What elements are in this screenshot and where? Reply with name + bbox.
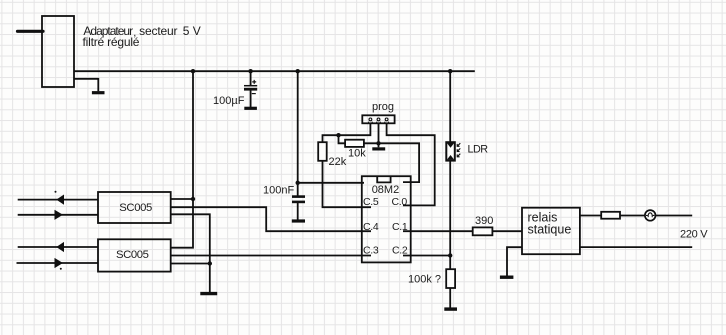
ground (100µF) [244,107,257,110]
wire: relais top output [580,215,692,217]
capacitor 100nF lower lead [297,203,299,220]
svg-text:SC005: SC005 [116,249,149,261]
wire: 100k to ground [449,288,451,308]
wire: relais left to ground [507,247,522,275]
svg-text:C.1: C.1 [392,221,408,233]
svg-text:SC005: SC005 [119,202,152,214]
ground (prog) [372,147,385,150]
LDR top triangle [447,143,454,148]
prog pin 2 socket [377,122,381,124]
ground (SC005) [200,292,217,295]
junction node rail x450.2 [448,69,452,73]
svg-text:C.2: C.2 [392,244,408,256]
svg-text:100nF: 100nF [263,185,294,197]
svg-text:secteur: secteur [139,24,177,38]
light arrow 3 [457,154,460,157]
fuse [601,212,620,219]
relais statique box [522,208,580,255]
svg-text:prog: prog [372,101,394,113]
diode arrow input 1 (left) [56,195,64,205]
svg-text:C.5: C.5 [363,196,379,208]
LDR body [446,142,455,160]
diode arrow input 2 (right) [55,210,63,220]
wire: SC005#2 C.3 wire [171,255,371,257]
wire: C.2 to LDR node [403,255,450,257]
wire: SC005#1 out to C.4 [171,207,371,231]
capacitor 100µF plus plate [244,85,257,87]
prog pin 3 [385,118,388,121]
light arrow 1 [457,143,460,146]
prog pin 1 socket [369,122,373,124]
junction node rail x250.6 [248,69,252,73]
svg-text:C.4: C.4 [363,221,379,233]
svg-text:100µF: 100µF [213,95,245,107]
svg-text:10k: 10k [348,148,366,160]
capacitor 100µF wire from rail [250,71,252,85]
prog pin 1 [369,118,372,121]
wire: relais bottom output [580,246,692,248]
prog pin 3 socket [385,122,389,124]
wire: rail down to SC005 supplies [171,71,193,248]
light arrow 2 [457,148,460,151]
input wire 4 [17,262,99,264]
svg-text:220 V: 220 V [680,228,708,240]
svg-text:statique: statique [528,223,572,237]
prog connector box [362,115,394,123]
ground (100k) [444,307,457,310]
capacitor 100nF plate 1 [292,195,305,198]
capacitor 100µF lower lead [250,91,252,108]
ground (adapter) [92,91,105,94]
wire: 10k right to C.0 inner [364,143,419,182]
svg-text:100k ?: 100k ? [408,274,441,286]
junction node (297.7,182.8) [296,181,300,185]
junction node (450.2,255.5) [448,253,452,257]
wire: SC005#2 out to ground junction [171,263,210,265]
junction node rail x193 [191,69,195,73]
lamp [645,210,656,221]
prog pin 2 [377,118,380,121]
resistor 390 [473,227,493,235]
lamp filament [646,213,654,217]
junction node (378.5,143.3) [376,141,380,145]
diode arrow input 4 (right) [55,258,63,268]
input wire 3 [18,246,98,248]
input wire 1 [18,199,98,201]
wire: VDD to IC [298,182,364,184]
svg-text:22k: 22k [329,156,347,168]
junction node (209.8,263.5) [208,261,212,265]
wire: SC005#1 out to ground line [171,214,210,292]
diode arrow input 3 (left) [56,242,64,252]
svg-text:390: 390 [475,215,493,227]
wire: rail through LDR down to 100k [449,71,451,269]
capacitor 100µF plus sign [252,80,256,84]
capacitor 100µF minus sign [252,93,256,95]
junction node (193,199) [191,197,195,201]
IC notch [377,177,390,183]
wire: 22k net to prog left pin [323,123,372,207]
SC005 #2 box [98,239,171,271]
LDR bottom triangle [447,155,454,160]
capacitor 100µF minus plate [244,88,257,91]
svg-text:filtré régulé: filtré régulé [83,35,140,49]
svg-text:LDR: LDR [468,143,489,155]
wire: adapter to ground [74,79,98,91]
SC005 #1 box [98,192,171,223]
wire: prog middle pin to ground [378,123,380,147]
svg-text:5 V: 5 V [183,24,201,38]
resistor 22k [318,142,327,161]
mains input wire [18,30,44,33]
polarity dot top [55,191,57,193]
polarity dot bottom [60,268,62,270]
junction node rail x297.7 [296,69,300,73]
wire: +5V rail [74,70,475,72]
ground (100nF) [292,219,305,222]
resistor 10k [345,140,364,147]
IC 08M2 box [362,176,411,262]
wire: rail down to 100nF node [297,71,299,195]
input wire 2 [18,214,98,216]
svg-text:08M2: 08M2 [372,184,400,196]
wire: junction down to 10k left [339,135,347,143]
resistor 100k [446,269,455,288]
svg-text:C.3: C.3 [363,244,379,256]
junction node (338.5,135.2) [336,133,340,137]
wire: C.1 to relais [403,230,522,232]
ground (relais) [500,276,514,279]
svg-text:C.0: C.0 [392,196,408,208]
capacitor 100nF plate 2 [292,201,305,204]
wire: SC005#1 +5V [171,198,193,200]
power adapter box [42,16,74,87]
wire: prog right pin to C.0 [387,123,435,205]
